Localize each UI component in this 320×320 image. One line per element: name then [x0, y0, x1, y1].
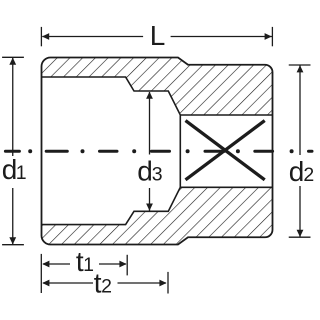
hatched top wall section	[42, 58, 273, 116]
svg-text:t1: t1	[76, 246, 94, 277]
dimension d2 up arrow	[297, 65, 304, 72]
dimension t2 left arrow	[42, 280, 49, 287]
dimension L line	[42, 36, 143, 38]
centerline dots	[28, 149, 293, 153]
socket body outer outline	[42, 58, 273, 245]
svg-text:d2: d2	[289, 156, 314, 187]
svg-text:t2: t2	[94, 268, 112, 299]
dimension d3 down arrow	[146, 204, 153, 211]
dimension d2 line	[299, 66, 301, 156]
dimension d1 up arrow	[9, 58, 16, 65]
dimension t2 line	[43, 282, 93, 284]
dimension d3 up arrow	[146, 92, 153, 99]
dimension L left arrow	[42, 33, 49, 40]
centerline dashes	[5, 150, 312, 153]
shared left tick for t1 t2	[40, 254, 42, 293]
svg-text:d3: d3	[137, 156, 162, 187]
dimension L left tick	[40, 27, 42, 46]
dimension d1 down arrow	[9, 237, 16, 244]
dimension t1 right arrow	[119, 261, 126, 268]
dimension t1 line	[43, 263, 70, 265]
dimension d1 ticks	[2, 56, 24, 58]
dimension L right tick	[271, 27, 273, 46]
dimension d1 line	[12, 58, 14, 156]
svg-text:d1: d1	[2, 154, 27, 185]
inner bore profile bottom	[42, 187, 273, 224]
dimension t2 right arrow	[159, 280, 166, 287]
dimension d2 down arrow	[297, 230, 304, 237]
dimension t1 right tick	[126, 255, 128, 276]
square drive X cross	[186, 121, 265, 180]
dimension t1 left arrow	[42, 261, 49, 268]
dimension d2 ticks	[289, 64, 311, 66]
square drive hole left face	[179, 115, 181, 187]
dimension d3 line	[149, 92, 151, 155]
svg-text:L: L	[150, 20, 166, 51]
hatched bottom wall section	[42, 187, 273, 244]
dimension L right arrow	[265, 33, 272, 40]
inner bore profile top	[42, 77, 273, 115]
dimension t2 right tick	[167, 272, 169, 294]
